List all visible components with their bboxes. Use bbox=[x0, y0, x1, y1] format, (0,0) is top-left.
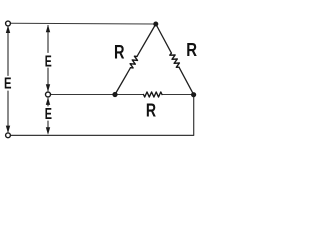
wire bottom rail bbox=[11, 95, 194, 136]
junction dot node B (bottom-left of delta) bbox=[112, 92, 117, 97]
terminal top-left bbox=[6, 21, 11, 26]
wire left diagonal upper stub bbox=[137, 24, 156, 56]
svg-text:R: R bbox=[186, 40, 197, 60]
arrowhead down (upper E, at node A) bbox=[46, 84, 50, 92]
wire top rail bbox=[11, 22, 156, 25]
wire right diagonal lower stub bbox=[179, 67, 194, 95]
wire middle (node B to node C) bbox=[51, 94, 194, 96]
terminal node A (middle tap) bbox=[46, 92, 51, 97]
svg-text:R: R bbox=[146, 101, 156, 121]
arrowhead up (left E, top) bbox=[6, 26, 10, 34]
label R (right resistor) bbox=[186, 40, 197, 60]
svg-text:E: E bbox=[4, 76, 12, 93]
junction dot node C (bottom-right of delta) bbox=[191, 92, 196, 97]
voltage arrow E (upper half) shaft bbox=[47, 26, 49, 91]
label R (bottom resistor) bbox=[146, 101, 156, 121]
label E (left full voltage) bbox=[4, 76, 12, 93]
voltage arrow E (left, full) shaft bbox=[7, 27, 9, 132]
resistor R (right side of delta) bbox=[170, 53, 180, 67]
label E (lower half voltage) bbox=[45, 106, 52, 123]
label R (left resistor) bbox=[114, 42, 125, 63]
arrowhead up (lower E, at node A) bbox=[46, 97, 50, 105]
svg-text:E: E bbox=[45, 53, 52, 70]
svg-text:R: R bbox=[114, 42, 125, 63]
junction dot apex of delta bbox=[153, 22, 158, 27]
label E (upper half voltage) bbox=[45, 53, 52, 70]
voltage arrow E (lower half) shaft bbox=[47, 99, 49, 134]
wire right diagonal upper stub bbox=[156, 24, 172, 53]
resistor R (bottom side of delta) bbox=[144, 92, 163, 97]
svg-text:E: E bbox=[45, 106, 52, 123]
arrowhead down (left E, bottom) bbox=[6, 126, 10, 134]
arrowhead down (lower E, bottom) bbox=[46, 127, 50, 135]
terminal bottom-left bbox=[6, 133, 11, 138]
wire left diagonal lower stub bbox=[115, 68, 131, 95]
arrowhead up (upper E, top) bbox=[46, 25, 50, 33]
resistor R (left side of delta) bbox=[130, 56, 137, 68]
